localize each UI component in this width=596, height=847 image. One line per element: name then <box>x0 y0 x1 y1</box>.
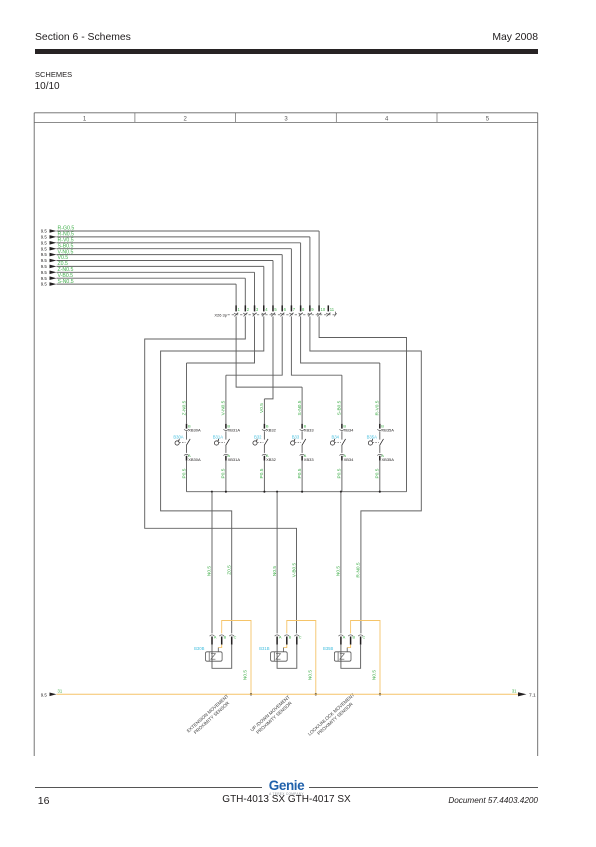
svg-text:9.5: 9.5 <box>41 282 48 287</box>
svg-text:2: 2 <box>247 307 250 312</box>
proximity switch contact B30A with connector pins XB30A <box>173 363 201 492</box>
svg-text:1: 1 <box>83 117 87 123</box>
bottom bus right reference 7.1 <box>512 688 536 698</box>
svg-text:31: 31 <box>512 688 517 693</box>
footer document number <box>448 796 538 805</box>
wire V0.5 X26:5 to branch B32 feed <box>264 316 273 399</box>
connector X26 pin 8 <box>299 305 305 316</box>
sensor B35B body <box>334 652 351 661</box>
svg-text:5: 5 <box>274 307 277 312</box>
svg-text:XB30A: XB30A <box>188 428 201 433</box>
svg-text:N0.5: N0.5 <box>207 566 213 576</box>
svg-text:XB31A: XB31A <box>228 428 241 433</box>
svg-text:V-B0.5: V-B0.5 <box>292 562 298 577</box>
svg-text:R-V0.5: R-V0.5 <box>375 400 381 415</box>
svg-text:XB32: XB32 <box>266 457 277 462</box>
svg-text:EXTENSION MOVEMENT: EXTENSION MOVEMENT <box>186 693 230 733</box>
connector X26 pin 11 <box>326 305 335 316</box>
footer page number 16 <box>38 795 50 807</box>
svg-text:9.5: 9.5 <box>41 246 48 251</box>
footer model title <box>0 794 573 805</box>
svg-text:3: 3 <box>284 117 288 123</box>
wire Z0.5 X26:4 left riser to sensor B30B pin C <box>161 316 264 633</box>
bottom bus left reference 9.5 <box>41 688 63 697</box>
svg-text:7.1: 7.1 <box>529 692 536 698</box>
svg-text:LOCK/UNLOCK MOVEMENT: LOCK/UNLOCK MOVEMENT <box>307 692 356 736</box>
svg-text:6: 6 <box>284 307 287 312</box>
svg-text:B30B: B30B <box>194 646 204 651</box>
header left: Section 6 - Schemes <box>35 32 131 43</box>
wire N0.5 bus to sensor B30B pin A <box>207 492 213 634</box>
svg-text:N0.5: N0.5 <box>308 670 314 680</box>
wire R-N0.5 from 9.5 to X26 pin 9 <box>41 232 310 306</box>
label LOCK/UNLOCK MOVEMENT PROXIMITY SENSOR <box>307 692 360 741</box>
svg-text:B30A: B30A <box>173 435 183 440</box>
svg-text:B32: B32 <box>254 435 262 440</box>
svg-text:4: 4 <box>265 307 268 312</box>
svg-text:B31B: B31B <box>259 646 269 651</box>
svg-text:A: A <box>343 635 346 639</box>
svg-text:10: 10 <box>321 307 326 312</box>
svg-text:9.5: 9.5 <box>41 229 48 234</box>
svg-text:XB30A: XB30A <box>188 457 201 462</box>
svg-text:9.5: 9.5 <box>41 276 48 281</box>
wire pin A through sensor B31B body to pin C <box>277 645 297 669</box>
svg-text:XB35A: XB35A <box>382 428 395 433</box>
orange jog pin B into sensor B31B body <box>283 645 286 652</box>
wire R-V0.5 from 9.5 to X26 pin 8 <box>41 238 301 306</box>
orange wire pin B feed of B31B <box>287 621 316 695</box>
proximity switch contact B31A with connector pins XB31A <box>213 375 241 492</box>
svg-text:XB35A: XB35A <box>382 457 395 462</box>
junction dot B35B on bottom bus <box>379 693 381 695</box>
svg-text:P0.5: P0.5 <box>221 468 227 478</box>
svg-text:V-N0.5: V-N0.5 <box>221 400 227 415</box>
orange wire pin B feed of B35B <box>351 621 380 695</box>
orange wire pin B feed of B30B <box>222 621 251 695</box>
junction dot B31B on bottom bus <box>315 693 317 695</box>
svg-text:A: A <box>279 635 282 639</box>
header black bar <box>35 49 539 55</box>
svg-text:P0.5: P0.5 <box>259 468 265 478</box>
proximity switch contact B32 with connector pins XB32 <box>253 399 277 492</box>
wire Z0.5 from 9.5 to X26 pin 4 <box>41 261 264 306</box>
subtitle SCHEMES <box>35 70 72 79</box>
wire V-N0.5 X26:6 to branch B31A feed <box>226 316 282 375</box>
svg-text:B35A: B35A <box>367 435 377 440</box>
connector X26 pin 10 <box>317 305 326 316</box>
wire S-B0.5 from 9.5 to X26 pin 7 <box>41 243 292 305</box>
svg-text:B35B: B35B <box>323 646 333 651</box>
Genie logo <box>264 780 309 792</box>
connector X26 dashed body <box>228 314 336 316</box>
svg-text:R-N0.5: R-N0.5 <box>355 562 361 578</box>
connector X26 pin 4 <box>262 305 269 316</box>
svg-text:XB33: XB33 <box>304 428 315 433</box>
svg-text:9.5: 9.5 <box>41 264 48 269</box>
bottom bus wire 31 (N0.5) <box>57 693 519 695</box>
label UP /DOWN MOVEMENT PROXIMITY SENSOR <box>249 694 294 736</box>
svg-text:B33: B33 <box>292 435 300 440</box>
svg-text:9.5: 9.5 <box>41 270 48 275</box>
connector X26 end symbol <box>334 312 337 317</box>
orange jog pin B into sensor B35B body <box>347 645 350 652</box>
svg-text:9.5: 9.5 <box>41 258 48 263</box>
connector X26 pin 5 <box>271 305 278 316</box>
svg-text:Z0.5: Z0.5 <box>226 565 232 575</box>
drawing frame border <box>34 113 538 756</box>
svg-text:A: A <box>214 635 217 639</box>
svg-text:C: C <box>299 635 302 639</box>
connector X26 pin 1 <box>234 305 241 316</box>
wire S-N0.5 X26:1 to branch B33 feed <box>236 316 302 387</box>
wire V-B0.5 from 9.5 to X26 pin 2 <box>41 273 246 306</box>
wire V-N0.5 from 9.5 to X26 pin 6 <box>41 249 283 305</box>
wire V-B0.5 X26:2 left riser to sensor B31B pin C <box>145 316 297 633</box>
svg-text:XB32: XB32 <box>266 428 277 433</box>
svg-text:B: B <box>289 635 292 639</box>
wire S-N0.5 from 9.5 to X26 pin 1 <box>41 279 236 306</box>
wire N0.5 bus to sensor B31B pin A <box>272 492 278 634</box>
svg-text:XB33: XB33 <box>304 457 315 462</box>
svg-text:9.5: 9.5 <box>41 252 48 257</box>
svg-text:9.5: 9.5 <box>41 240 48 245</box>
wire R-N0.5 X26:9 right riser to sensor B35B pin C <box>310 316 421 633</box>
sensor B35B connector pins A B C <box>339 635 366 645</box>
wire R-V0.5 X26:8 to branch B35A feed <box>301 316 380 363</box>
wire Z-N0.5 X26:3 to branch B30A feed <box>187 316 255 363</box>
footer rule left segment <box>35 786 262 789</box>
orange jog pin B into sensor B30B body <box>218 645 221 652</box>
bus wire P0.5 collecting branches <box>187 491 407 493</box>
svg-text:9: 9 <box>311 307 314 312</box>
svg-text:C: C <box>363 635 366 639</box>
connector X26 pin 6 <box>280 305 287 316</box>
wire R-G0.5 X26:10 right riser to bus <box>319 316 406 491</box>
svg-text:11: 11 <box>330 307 335 312</box>
proximity switch contact B33 with connector pins XB33 <box>291 387 315 492</box>
proximity switch contact B34 with connector pins XB34 <box>330 375 354 492</box>
wire S-B0.5 X26:7 to branch B34 feed <box>291 316 342 375</box>
connector X26 pin 3 <box>252 305 258 316</box>
svg-text:N0.5: N0.5 <box>272 566 278 576</box>
wire pin A through sensor B30B body to pin C <box>212 645 232 669</box>
svg-text:8: 8 <box>302 307 305 312</box>
frame column header row (1-5) <box>83 113 490 123</box>
svg-text:C: C <box>234 635 237 639</box>
svg-text:P0.5: P0.5 <box>337 468 343 478</box>
sensor B31B connector pins A B C <box>275 635 302 645</box>
subtitle 10/10 <box>35 81 60 92</box>
svg-text:X26 3p: X26 3p <box>214 313 227 318</box>
wire N0.5 bus to sensor B35B pin A <box>336 492 342 634</box>
svg-text:N0.5: N0.5 <box>372 670 378 680</box>
sensor B30B body <box>206 652 223 661</box>
svg-text:4: 4 <box>385 117 389 123</box>
svg-text:9.5: 9.5 <box>41 235 48 240</box>
svg-text:P0.5: P0.5 <box>375 468 381 478</box>
sensor B31B body <box>271 652 288 661</box>
connector X26 pin 2 <box>243 305 249 316</box>
svg-text:2: 2 <box>184 117 188 123</box>
svg-text:V0.5: V0.5 <box>259 403 265 413</box>
svg-text:B34: B34 <box>332 435 340 440</box>
connector X26 pin 9 <box>308 305 315 316</box>
wire Z-N0.5 from 9.5 to X26 pin 3 <box>41 267 255 306</box>
svg-text:7: 7 <box>293 307 296 312</box>
wire V0.5 from 9.5 to X26 pin 5 <box>41 255 273 305</box>
svg-text:N0.5: N0.5 <box>336 566 342 576</box>
footer rule right segment <box>309 786 538 789</box>
svg-text:N0.5: N0.5 <box>243 670 249 680</box>
label EXTENSION MOVEMENT PROXIMITY SENSOR <box>186 693 234 738</box>
svg-text:Z-N0.5: Z-N0.5 <box>181 400 187 415</box>
proximity switch contact B35A with connector pins XB35A <box>367 363 395 492</box>
svg-text:31: 31 <box>58 688 63 693</box>
svg-text:XB34: XB34 <box>344 428 355 433</box>
junction dot B30B on bottom bus <box>250 693 252 695</box>
svg-text:1: 1 <box>238 307 241 312</box>
wire R-G0.5 from 9.5 to X26 pin 10 <box>41 226 319 306</box>
svg-text:B31A: B31A <box>213 435 223 440</box>
svg-text:XB31A: XB31A <box>228 457 241 462</box>
wire pin A through sensor B35B body to pin C <box>341 645 361 669</box>
svg-text:P0.5: P0.5 <box>297 468 303 478</box>
svg-text:9.5: 9.5 <box>41 692 48 697</box>
svg-text:5: 5 <box>486 117 490 123</box>
Genie logo subtext A TEREX COMPANY <box>264 792 309 796</box>
svg-text:S-N0.5: S-N0.5 <box>297 400 303 415</box>
svg-text:3: 3 <box>256 307 259 312</box>
header right: May 2008 <box>492 32 538 43</box>
svg-text:UP /DOWN MOVEMENT: UP /DOWN MOVEMENT <box>249 694 291 732</box>
svg-text:XB34: XB34 <box>344 457 355 462</box>
svg-text:B: B <box>224 635 227 639</box>
svg-text:P0.5: P0.5 <box>181 468 187 478</box>
connector X26 pin 7 <box>289 305 295 316</box>
svg-text:S-B0.5: S-B0.5 <box>337 400 343 415</box>
sensor B30B connector pins A B C <box>210 635 237 645</box>
bus junction dots <box>211 491 381 493</box>
svg-text:B: B <box>353 635 356 639</box>
